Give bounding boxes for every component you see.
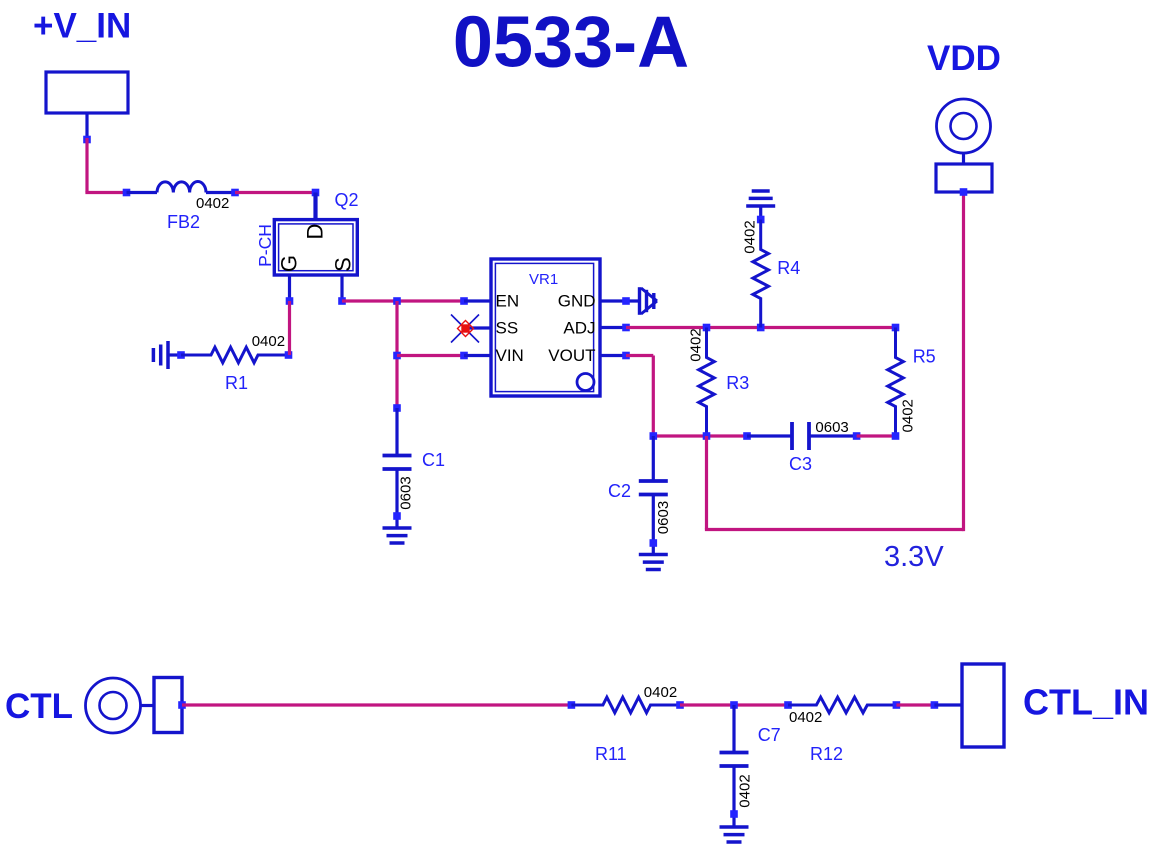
pin label GND — [558, 292, 596, 311]
label 0402 FB2 — [196, 195, 229, 212]
pin VOUT stub — [600, 354, 626, 357]
junction R4 bottom — [757, 324, 765, 332]
transistor Q2 body — [274, 220, 357, 275]
wire vertical bus — [395, 301, 398, 408]
svg-text:VR1: VR1 — [529, 271, 558, 288]
junction R12 right — [893, 701, 901, 709]
junction bus top — [393, 297, 401, 305]
pin label SS — [496, 319, 519, 338]
resistor R3 — [699, 328, 715, 437]
junction loop R3 — [703, 432, 711, 440]
svg-text:C3: C3 — [789, 454, 812, 474]
pin label D — [303, 224, 328, 240]
svg-text:C7: C7 — [758, 725, 781, 745]
svg-text:D: D — [303, 224, 328, 240]
svg-text:R4: R4 — [777, 258, 800, 278]
capacitor C7 — [720, 753, 749, 767]
label P-CH — [255, 224, 275, 267]
ground R4 — [746, 191, 775, 206]
wire C7 top lead — [732, 705, 735, 753]
junction bus mid — [393, 352, 401, 360]
junction Q2 gate — [286, 297, 294, 305]
resistor R12 — [788, 697, 896, 713]
ground R1 — [153, 341, 168, 369]
wire 3.3V loop — [705, 192, 964, 531]
svg-text:P-CH: P-CH — [255, 224, 275, 267]
svg-text:R5: R5 — [913, 347, 936, 367]
svg-text:0402: 0402 — [789, 709, 822, 726]
junction VOUT pin — [622, 352, 630, 360]
svg-text:0402: 0402 — [742, 220, 759, 253]
svg-text:VOUT: VOUT — [548, 346, 595, 365]
junction C1 bottom — [393, 512, 401, 520]
junction bus bottom — [393, 404, 401, 412]
wire C2 top lead — [652, 436, 655, 481]
junction R11 right — [676, 701, 684, 709]
wire C3 to R5 — [857, 434, 896, 437]
label R11 — [595, 744, 627, 764]
wire R1 to Q2 gate — [288, 301, 291, 355]
wire C3 right lead — [809, 434, 857, 437]
wire CTL to R11 — [182, 703, 571, 706]
svg-text:FB2: FB2 — [167, 212, 200, 232]
svg-text:G: G — [277, 255, 302, 272]
resistor R11 — [571, 697, 680, 713]
svg-text:VDD: VDD — [927, 39, 1001, 78]
pin label S — [331, 257, 356, 272]
label 0402 R12 — [789, 709, 822, 726]
net label VDD — [927, 39, 1001, 78]
junction C2 bottom — [650, 539, 658, 547]
no-connect X on SS — [451, 315, 479, 343]
port symbol CTL — [86, 678, 183, 734]
label 0402 R5 — [900, 399, 917, 432]
svg-text:CTL: CTL — [5, 687, 73, 726]
wire FB2 to Q2 drain — [235, 191, 316, 194]
junction R4 top — [757, 216, 765, 224]
wire C7 to gnd — [732, 766, 735, 827]
label C1 — [422, 450, 445, 470]
junction CTL pin — [178, 701, 186, 709]
wire stub to CTL_IN port — [934, 703, 962, 706]
pin EN stub — [464, 299, 491, 302]
junction FB2 left net — [123, 189, 131, 197]
svg-text:0533-A: 0533-A — [453, 3, 689, 83]
label 0603 C3 — [815, 419, 848, 436]
ground C2 — [639, 555, 668, 570]
wire C2 row — [653, 434, 747, 437]
junction VIN net — [460, 352, 468, 360]
label R1 — [225, 373, 248, 393]
label C7 — [758, 725, 781, 745]
svg-text:0402: 0402 — [252, 333, 285, 350]
pin label G — [277, 255, 302, 272]
wire C3 left lead — [747, 434, 792, 437]
svg-text:R1: R1 — [225, 373, 248, 393]
pin label VIN — [496, 346, 524, 365]
wire +V_IN to FB2 — [85, 138, 126, 193]
capacitor C1 — [383, 456, 412, 470]
label 0603 C1 — [398, 476, 415, 509]
resistor R5 — [888, 328, 904, 437]
wire R11 to C7 — [680, 703, 788, 706]
ground C7 — [720, 827, 749, 842]
net label 3.3V — [884, 541, 944, 573]
wire ADJ net — [626, 326, 896, 329]
pin label ADJ — [563, 319, 595, 338]
junction C7 bottom — [730, 810, 738, 818]
wire bus to VIN — [397, 354, 464, 357]
svg-text:GND: GND — [558, 292, 596, 311]
junction R3 top — [703, 324, 711, 332]
label Q2 — [335, 190, 359, 210]
label R4 — [777, 258, 800, 278]
wire gnd to R1 — [168, 353, 181, 356]
label 0402 R3 — [688, 328, 705, 361]
label 0402 R4 — [742, 220, 759, 253]
junction C3 left — [743, 432, 751, 440]
svg-text:EN: EN — [496, 292, 520, 311]
port symbol VDD — [936, 99, 992, 192]
svg-text:C1: C1 — [422, 450, 445, 470]
capacitor C3 — [792, 422, 809, 450]
resistor R4 — [753, 220, 769, 328]
junction C2 top — [650, 432, 658, 440]
svg-text:CTL_IN: CTL_IN — [1023, 682, 1149, 723]
junction R12 left — [784, 701, 792, 709]
svg-text:R3: R3 — [726, 373, 749, 393]
ground power symbol at GND pin — [640, 287, 658, 315]
junction R1 left — [177, 351, 185, 359]
junction FB2 right — [231, 189, 239, 197]
label C2 — [608, 481, 631, 501]
junction Q2 drain — [312, 189, 320, 197]
ground C1 — [383, 528, 412, 543]
title 0533-A — [453, 3, 689, 83]
pin S wire — [340, 275, 343, 301]
pin VIN stub — [464, 354, 491, 357]
junction Q2 source — [338, 297, 346, 305]
junction R5 top — [892, 324, 900, 332]
junction VDD pin — [960, 188, 968, 196]
junction R5 bottom — [892, 432, 900, 440]
svg-text:C2: C2 — [608, 481, 631, 501]
inductor FB2 coil — [157, 182, 206, 193]
svg-text:0402: 0402 — [737, 774, 754, 807]
svg-text:0603: 0603 — [815, 419, 848, 436]
junction C3 right — [853, 432, 861, 440]
svg-text:0603: 0603 — [655, 501, 672, 534]
label 0603 C2 — [655, 501, 672, 534]
svg-text:S: S — [331, 257, 356, 272]
pin ADJ stub — [600, 326, 626, 329]
wire R12 to CTL_IN — [896, 703, 934, 706]
net label CTL — [5, 687, 73, 726]
wire C2 to gnd — [652, 495, 655, 555]
pin label EN — [496, 292, 520, 311]
svg-text:3.3V: 3.3V — [884, 541, 944, 573]
svg-text:VIN: VIN — [496, 346, 524, 365]
junction CTL_IN pin — [931, 701, 939, 709]
label 0402 R11 — [644, 684, 677, 701]
svg-text:+V_IN: +V_IN — [33, 7, 131, 46]
junction +V_IN pin — [83, 136, 91, 144]
wire VOUT down — [626, 356, 653, 437]
net label CTL_IN — [1023, 682, 1149, 723]
pin SS stub — [468, 326, 491, 329]
svg-text:SS: SS — [496, 319, 519, 338]
label R3 — [726, 373, 749, 393]
svg-text:0402: 0402 — [196, 195, 229, 212]
pin G wire — [288, 275, 291, 301]
label 0402 C7 — [737, 774, 754, 807]
svg-text:Q2: Q2 — [335, 190, 359, 210]
label 0402 R1 — [252, 333, 285, 350]
svg-text:0402: 0402 — [688, 328, 705, 361]
wire bus to C1 — [395, 408, 398, 456]
junction R1 right — [285, 351, 293, 359]
label C3 — [789, 454, 812, 474]
junction R11 left — [568, 701, 576, 709]
junction ADJ pin — [622, 324, 630, 332]
capacitor C2 — [639, 481, 668, 495]
wire stub FB2 right — [206, 191, 235, 194]
pin D wire — [313, 193, 317, 220]
regulator IC VR1 body — [491, 259, 600, 396]
svg-text:0402: 0402 — [900, 399, 917, 432]
resistor R1 — [181, 347, 288, 363]
wire C1 to gnd — [395, 469, 398, 528]
net label +V_IN — [33, 7, 131, 46]
svg-text:0603: 0603 — [398, 476, 415, 509]
junction EN net — [460, 297, 468, 305]
label R5 — [913, 347, 936, 367]
junction C7 top — [730, 701, 738, 709]
svg-text:R12: R12 — [810, 744, 843, 764]
svg-text:0402: 0402 — [644, 684, 677, 701]
pin label VOUT — [548, 346, 595, 365]
wire S to EN — [342, 299, 464, 302]
port connector CTL_IN — [962, 664, 1004, 747]
label FB2 — [167, 212, 200, 232]
svg-text:R11: R11 — [595, 744, 627, 764]
wire stub FB2 left — [127, 191, 158, 194]
wire gnd to R4 — [759, 206, 762, 220]
junction GND pin — [622, 297, 630, 305]
label VR1 — [529, 271, 558, 288]
pin GND stub — [600, 299, 639, 302]
svg-text:ADJ: ADJ — [563, 319, 595, 338]
port connector +V_IN — [46, 72, 128, 140]
label R12 — [810, 744, 843, 764]
